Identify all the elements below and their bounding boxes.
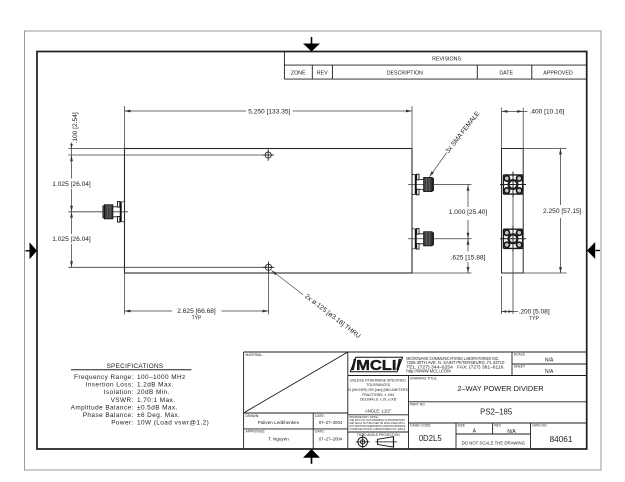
svg-text:SIZE: SIZE bbox=[458, 424, 466, 428]
svg-text:Power:: Power: bbox=[111, 420, 134, 427]
svg-text:.400 [10.16]: .400 [10.16] bbox=[530, 108, 565, 115]
svg-text:APPROVED: APPROVED bbox=[543, 71, 573, 77]
svg-text:CAGE CODE:: CAGE CODE: bbox=[410, 424, 431, 428]
svg-text:07–27–2004: 07–27–2004 bbox=[319, 420, 343, 425]
svg-text:SHEET: SHEET bbox=[514, 365, 525, 369]
svg-text:UNLESS OTHERWISE SPECIFIED:: UNLESS OTHERWISE SPECIFIED: bbox=[350, 378, 407, 382]
svg-text:84061: 84061 bbox=[550, 435, 573, 444]
svg-text:0D2L5: 0D2L5 bbox=[419, 434, 443, 443]
svg-text:2x ø.125 [ø3.18] THRU: 2x ø.125 [ø3.18] THRU bbox=[303, 293, 361, 340]
svg-text:VSWR:: VSWR: bbox=[111, 397, 134, 404]
svg-text:DECIMALS: ±.01 ±.005: DECIMALS: ±.01 ±.005 bbox=[360, 398, 396, 402]
svg-text:20dB Min.: 20dB Min. bbox=[137, 389, 170, 396]
svg-text:10W (Load vswr@1.2): 10W (Load vswr@1.2) bbox=[137, 420, 209, 427]
svg-text:DATE:: DATE: bbox=[315, 414, 325, 418]
svg-text:DATE: DATE bbox=[499, 71, 513, 77]
svg-text:Amplitude Balance:: Amplitude Balance: bbox=[71, 404, 134, 411]
svg-text:.625 [15.88]: .625 [15.88] bbox=[451, 254, 486, 261]
svg-text:T. Nguyen: T. Nguyen bbox=[268, 437, 289, 442]
svg-text:PS2–185: PS2–185 bbox=[480, 407, 513, 416]
svg-text:DO NOT SCALE THE DRAWING: DO NOT SCALE THE DRAWING bbox=[462, 441, 526, 446]
svg-text:1.000 [25.40]: 1.000 [25.40] bbox=[449, 209, 488, 216]
svg-text:REV: REV bbox=[494, 424, 502, 428]
svg-text:N/A: N/A bbox=[545, 369, 554, 375]
svg-text:TOLERANCES: TOLERANCES bbox=[366, 383, 390, 387]
svg-text:DATE:: DATE: bbox=[315, 430, 325, 434]
svg-text:Paliven Ledkhenken: Paliven Ledkhenken bbox=[258, 420, 300, 425]
svg-text:.100 [2.54]: .100 [2.54] bbox=[72, 112, 79, 143]
svg-text:1.025 [26.04]: 1.025 [26.04] bbox=[52, 236, 91, 243]
svg-text:1.70:1 Max.: 1.70:1 Max. bbox=[137, 397, 175, 404]
svg-text:REV: REV bbox=[317, 71, 328, 77]
svg-text:Isolation:: Isolation: bbox=[104, 389, 134, 396]
svg-text:SCALE: SCALE bbox=[514, 353, 526, 357]
svg-text:5.250 [133.35]: 5.250 [133.35] bbox=[248, 108, 290, 115]
svg-text:N/A: N/A bbox=[507, 429, 516, 435]
svg-text:TYP: TYP bbox=[529, 316, 539, 322]
svg-text:/MCLI/: /MCLI/ bbox=[352, 358, 402, 374]
svg-text:1.025 [26.04]: 1.025 [26.04] bbox=[52, 181, 91, 188]
svg-text:2–WAY POWER DIVIDER: 2–WAY POWER DIVIDER bbox=[457, 384, 543, 393]
svg-text:100–1000 MHz: 100–1000 MHz bbox=[137, 374, 186, 381]
svg-text:.200 [5.08]: .200 [5.08] bbox=[519, 309, 550, 316]
svg-text:1.2dB Max.: 1.2dB Max. bbox=[137, 382, 174, 389]
svg-text:IN (INCHES) OR [mm] (MILLI: IN (INCHES) OR [mm] (MILLIMETERS) bbox=[347, 388, 409, 392]
svg-text:MATERIAL:: MATERIAL: bbox=[246, 353, 264, 357]
svg-text:REVISIONS: REVISIONS bbox=[432, 57, 461, 63]
svg-text:DRAWING TITLE:: DRAWING TITLE: bbox=[410, 376, 437, 380]
svg-text:DRAWN:: DRAWN: bbox=[246, 414, 260, 418]
svg-text:PART NO.: PART NO. bbox=[410, 402, 426, 406]
svg-text:±0.5dB Max.: ±0.5dB Max. bbox=[137, 404, 178, 411]
svg-text:APPROVED:: APPROVED: bbox=[246, 430, 266, 434]
svg-text:Frequency Range:: Frequency Range: bbox=[74, 374, 134, 381]
svg-text:COMMUNICATIONS LABORATORIES IN: COMMUNICATIONS LABORATORIES INC. [MCLI] bbox=[349, 427, 405, 431]
svg-text:3x SMA FEMALE: 3x SMA FEMALE bbox=[445, 110, 482, 155]
svg-text:ANGLE: ±1/2°: ANGLE: ±1/2° bbox=[365, 408, 392, 413]
svg-text:SPECIFICATIONS: SPECIFICATIONS bbox=[107, 363, 164, 370]
svg-text:2.250 [57.15]: 2.250 [57.15] bbox=[543, 208, 582, 215]
svg-text:07–27–2004: 07–27–2004 bbox=[319, 437, 343, 442]
svg-text:2.625 [66.68]: 2.625 [66.68] bbox=[177, 308, 216, 315]
svg-text:N/A: N/A bbox=[545, 357, 554, 363]
svg-text:DWG NO.: DWG NO. bbox=[532, 424, 547, 428]
svg-text:Phase Balance:: Phase Balance: bbox=[83, 412, 134, 419]
svg-text:DESCRIPTION: DESCRIPTION bbox=[387, 71, 423, 77]
svg-text:ZONE: ZONE bbox=[291, 71, 306, 77]
svg-text:FRACTIONS: ± 1/64: FRACTIONS: ± 1/64 bbox=[362, 393, 394, 397]
svg-text:http:​//WWW.MCLI.COM: http:​//WWW.MCLI.COM bbox=[406, 368, 451, 373]
svg-text:±6 Deg. Max.: ±6 Deg. Max. bbox=[137, 412, 180, 419]
svg-text:Insertion Loss:: Insertion Loss: bbox=[85, 382, 133, 389]
svg-text:TYP: TYP bbox=[192, 315, 202, 321]
svg-text:A: A bbox=[473, 428, 477, 434]
